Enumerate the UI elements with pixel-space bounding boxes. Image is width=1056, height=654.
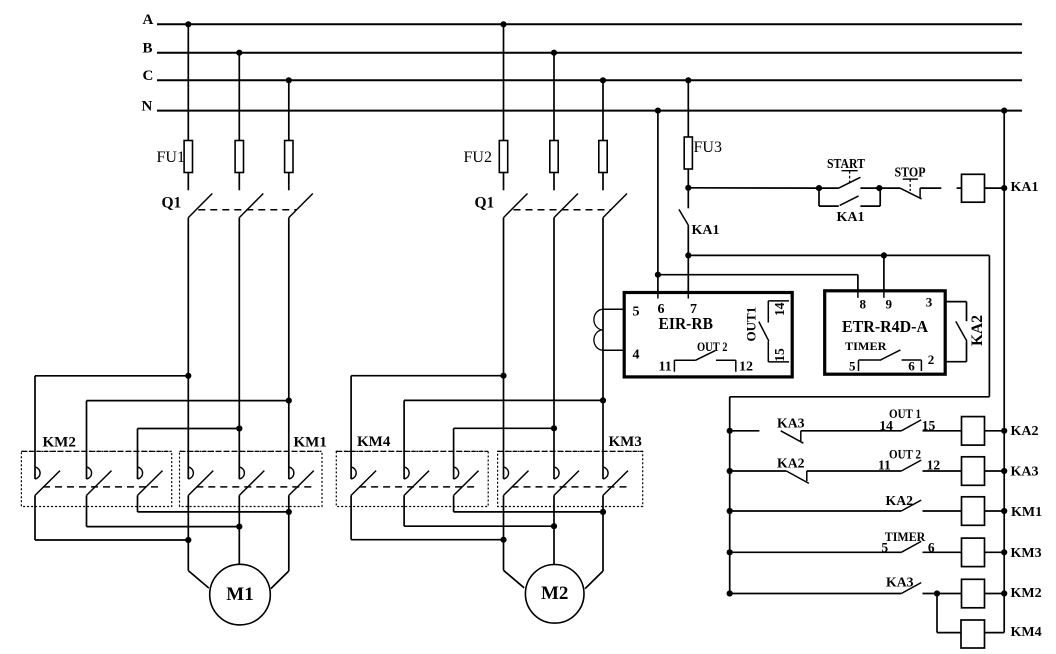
contactor KM3 contact 3	[602, 478, 604, 480]
svg-text:STOP: STOP	[895, 165, 926, 180]
svg-text:M2: M2	[541, 583, 568, 604]
svg-text:KM2: KM2	[1011, 586, 1042, 601]
svg-text:A: A	[143, 12, 154, 28]
wire ETR pin 3 to KA2 coil branch	[945, 301, 966, 303]
coil KM1	[962, 497, 985, 526]
EIR-RB pin 7 stub	[687, 293, 689, 299]
junction phase A tap	[185, 21, 191, 27]
contact OUT2 (NO, row2)	[901, 460, 921, 471]
junction	[727, 549, 733, 555]
svg-text:OUT 2: OUT 2	[889, 447, 921, 462]
wire N2 to ETR pin 8	[658, 274, 858, 276]
wire KM2 contact 1 out to motor lead U1	[35, 539, 188, 541]
svg-text:Q1: Q1	[475, 194, 495, 211]
current sensor loop on phase wire	[594, 309, 603, 330]
svg-text:12: 12	[927, 457, 941, 472]
breaker Q1 pole 3 blade	[289, 194, 313, 218]
wire coil KM3 to rail	[985, 551, 1005, 553]
wire KA1 contact to EIR-RB pin 7	[687, 225, 689, 292]
wire FU1 pole 2 to Q1	[238, 173, 240, 191]
junction N tap	[1001, 108, 1007, 114]
wire phase B drop to FU1 pole 2	[238, 53, 240, 141]
junction phase A tap	[500, 21, 506, 27]
junction	[727, 468, 733, 474]
wire phase B to KM2 contact 3	[138, 428, 240, 430]
fuse FU2 pole 3	[599, 141, 607, 173]
wire motor M2 lead W	[602, 512, 604, 571]
svg-text:KM2: KM2	[43, 435, 76, 451]
coil KM2	[962, 579, 985, 608]
svg-text:KM4: KM4	[357, 434, 391, 450]
junction	[551, 425, 557, 431]
breaker Q1 link (left)	[198, 209, 296, 211]
junction	[1001, 508, 1007, 514]
contactor KM3 contact 1	[503, 478, 505, 480]
wire FU2 pole 1 to Q1	[503, 173, 505, 191]
node N neutral bus	[157, 110, 1022, 112]
junction	[236, 524, 242, 530]
wire FU2 pole 3 to Q1	[602, 173, 604, 191]
relay contact KA2 (NC)	[786, 471, 809, 483]
wire row3 from rail	[730, 510, 902, 512]
junction phase C tap for FU3	[685, 77, 691, 83]
junction	[185, 537, 191, 543]
contactor KM2 contact 2	[86, 401, 88, 479]
svg-text:FU2: FU2	[464, 149, 492, 166]
svg-text:ETR-R4D-A: ETR-R4D-A	[842, 317, 929, 336]
svg-text:5: 5	[881, 540, 888, 555]
wire phase A to KM2 contact 1	[35, 375, 188, 377]
contact OUT2 (inside EIR-RB)	[673, 360, 675, 372]
relay contact KA3 (NO, row5)	[901, 583, 921, 594]
wire KM4 contact 1 out to motor lead U2	[351, 539, 503, 541]
svg-text:5: 5	[849, 359, 856, 374]
wire L1 to START	[688, 187, 819, 189]
contactor KM2 contact 3	[137, 429, 139, 480]
svg-text:Q1: Q1	[162, 194, 182, 211]
EIR-RB pin 6 stub	[657, 293, 659, 299]
junction	[655, 108, 661, 114]
motor M1	[210, 564, 271, 625]
fuse FU1 pole 2	[235, 141, 243, 173]
svg-text:5: 5	[633, 304, 640, 319]
svg-text:C: C	[143, 68, 154, 84]
svg-text:START: START	[827, 156, 865, 171]
fuse FU3	[684, 137, 692, 169]
contactor KM3 contact 2	[553, 478, 555, 480]
node C phase bus	[157, 79, 1022, 81]
junction	[286, 398, 292, 404]
wire coil KM2 to rail	[985, 593, 1005, 595]
junction	[185, 373, 191, 379]
wire Q1 pole 1 to KM1 contact 1	[187, 218, 189, 479]
junction	[500, 373, 506, 379]
contactor KM4 contact 1	[350, 376, 352, 479]
wire coil KA1 to N rail	[985, 187, 1005, 189]
junction	[1001, 549, 1007, 555]
wire KM2 contact 3 out to motor lead W1	[138, 511, 289, 513]
junction	[600, 509, 606, 515]
wire phase C to FU3	[687, 80, 689, 137]
wire Q1 pole 2 to KM3 contact 2	[553, 218, 555, 479]
contactor KM1 mechanical link	[196, 486, 313, 488]
wire phase B to KM4 contact 3	[454, 427, 554, 429]
svg-text:KA2: KA2	[886, 494, 914, 509]
contact TIMER (NO, row4)	[901, 541, 921, 552]
wire KM2 contact 2 out to motor lead V1	[87, 526, 240, 528]
svg-text:9: 9	[886, 297, 893, 312]
junction	[286, 509, 292, 515]
svg-text:14: 14	[772, 302, 787, 316]
wire Q1 pole 3 to KM3 contact 3	[602, 218, 604, 479]
svg-text:FU1: FU1	[157, 149, 185, 166]
EIR-RB pin 4 stub	[603, 349, 624, 351]
wire Q1 pole 1 to KM3 contact 1	[503, 218, 505, 479]
breaker Q1 pole 2 blade	[239, 194, 263, 218]
junction	[1001, 590, 1007, 596]
breaker Q1 pole 1 blade	[188, 194, 212, 218]
svg-text:KM4: KM4	[1011, 625, 1042, 640]
junction control node L1	[685, 185, 691, 191]
fuse FU2 pole 2	[550, 141, 558, 173]
wire phase A drop to FU2 pole 1	[503, 24, 505, 140]
motor M2	[525, 565, 584, 624]
contactor KM1 contact 2	[238, 478, 240, 480]
wire Q1 pole 3 to KM1 contact 3	[288, 218, 290, 479]
junction phase B tap	[551, 50, 557, 56]
wire N rail (right)	[1003, 111, 1005, 633]
coil KA3	[962, 457, 985, 486]
wire FU1 pole 1 to Q1	[187, 173, 189, 191]
svg-text:FU3: FU3	[694, 139, 722, 156]
wire STOP to coil KA1	[957, 187, 962, 189]
svg-text:4: 4	[633, 348, 640, 363]
relay contact KA3 (NC)	[781, 431, 804, 443]
wire phase A drop to FU1 pole 1	[187, 24, 189, 140]
wire FU2 pole 2 to Q1	[553, 173, 555, 191]
pushbutton STOP (NC)	[879, 187, 900, 189]
wire row4 from rail	[730, 551, 902, 553]
junction	[1001, 468, 1007, 474]
junction	[727, 428, 733, 434]
relay contact KA1 (self-holding, NO)	[818, 188, 820, 206]
ETR pin 8 stub	[857, 291, 859, 298]
svg-text:6: 6	[908, 359, 915, 374]
svg-text:2: 2	[928, 352, 935, 367]
junction	[881, 252, 887, 258]
svg-text:KM1: KM1	[1011, 505, 1042, 520]
breaker Q1 link (middle)	[514, 209, 611, 211]
contactor KM4 contact 2	[403, 400, 405, 479]
svg-text:B: B	[143, 40, 153, 56]
wire coil KM4 to rail	[985, 632, 1005, 634]
contactor KM3 mechanical link	[512, 486, 629, 488]
svg-text:KA2: KA2	[969, 315, 986, 346]
wire Q1 pole 2 to KM1 contact 2	[238, 218, 240, 479]
wire L2 feed	[688, 254, 989, 256]
coil KA1	[962, 174, 985, 202]
svg-text:TIMER: TIMER	[885, 529, 926, 544]
svg-text:N: N	[142, 98, 153, 114]
contactor KM4 mechanical link	[359, 486, 479, 488]
contactor KM1 contact 3	[288, 478, 290, 480]
relay contact KA2 (on ETR output)	[956, 321, 967, 341]
fuse FU2 pole 1	[499, 141, 507, 173]
svg-text:OUT 1: OUT 1	[889, 406, 921, 421]
junction phase C tap	[286, 77, 292, 83]
wire N to EIR-RB pin 6	[657, 111, 659, 293]
wire branch to coil KM4	[936, 594, 938, 633]
EIR-RB pin 5 stub	[603, 308, 624, 310]
contactor KM4 contact 3	[453, 428, 455, 479]
junction	[600, 397, 606, 403]
wire KM4 contact 3 out to motor lead W2	[454, 511, 603, 513]
relay contact KA1 (NO, in FU3 branch)	[679, 209, 688, 225]
contactor KM1 box	[180, 451, 323, 506]
junction phase B tap	[236, 50, 242, 56]
wire motor M1 lead U	[187, 540, 189, 571]
wire phase C to KM2 contact 2	[87, 400, 289, 402]
junction node N2	[655, 272, 661, 278]
svg-text:TIMER: TIMER	[845, 341, 887, 353]
svg-text:15: 15	[772, 348, 787, 362]
junction	[500, 537, 506, 543]
contact OUT1 (inside EIR-RB)	[768, 300, 789, 302]
contactor KM1 contact 1	[187, 478, 189, 480]
svg-text:14: 14	[879, 418, 893, 433]
wire motor M2 lead U	[503, 540, 505, 571]
junction	[551, 523, 557, 529]
wire phase C drop to FU1 pole 3	[288, 80, 290, 140]
wire KA2 contact to ETR pin 2	[966, 341, 968, 361]
svg-text:11: 11	[878, 457, 891, 472]
timer module ETR-R4D-A box	[825, 291, 946, 374]
svg-text:11: 11	[659, 360, 672, 375]
wire coil KA2 to rail	[985, 430, 1005, 432]
relay contact KA2 (NO, row3)	[901, 500, 921, 511]
svg-text:KA2: KA2	[777, 456, 805, 471]
relay module EIR-RB box	[624, 293, 792, 377]
wire coil KA3 to rail	[985, 470, 1005, 472]
wire motor M2 lead V	[553, 526, 555, 564]
junction phase C tap	[600, 77, 606, 83]
junction	[727, 508, 733, 514]
svg-text:KA3: KA3	[777, 416, 805, 431]
svg-text:6: 6	[928, 540, 935, 555]
svg-text:12: 12	[739, 360, 753, 375]
contactor KM2 contact 1	[34, 376, 36, 479]
svg-text:KA3: KA3	[1011, 464, 1039, 479]
ETR pin 9 stub	[883, 291, 885, 298]
svg-text:KM3: KM3	[1011, 546, 1042, 561]
wire L2 to ETR pin 9	[883, 255, 885, 290]
svg-text:KA2: KA2	[1011, 424, 1039, 439]
svg-text:KA1: KA1	[1011, 180, 1039, 195]
svg-text:7: 7	[690, 302, 697, 317]
wire phase C to KM4 contact 2	[404, 399, 603, 401]
junction node L2	[685, 252, 691, 258]
wire FU1 pole 3 to Q1	[288, 173, 290, 191]
svg-text:6: 6	[658, 302, 665, 317]
svg-text:M1: M1	[226, 584, 253, 605]
wire FU3 to control node L1	[687, 169, 689, 208]
svg-text:KA1: KA1	[692, 223, 720, 238]
svg-text:OUT1: OUT1	[744, 307, 759, 342]
contactor KM3 box	[498, 451, 643, 506]
wire coil KM1 to rail	[985, 510, 1005, 512]
wire phase B drop to FU2 pole 2	[553, 53, 555, 141]
coil KA2	[962, 417, 985, 446]
breaker Q1 pole 1 blade	[504, 194, 528, 218]
contactor KM2 box	[21, 451, 171, 506]
fuse FU1 pole 3	[285, 141, 293, 173]
svg-text:KA1: KA1	[837, 210, 865, 225]
breaker Q1 pole 3 blade	[603, 194, 627, 218]
wire row1 from rail	[730, 430, 760, 432]
coil KM3	[962, 538, 985, 567]
svg-text:KA3: KA3	[886, 575, 914, 590]
pushbutton START (NO)	[819, 187, 839, 189]
svg-text:3: 3	[926, 295, 933, 310]
wire motor M1 lead W	[288, 512, 290, 571]
svg-text:8: 8	[860, 297, 867, 312]
contactor KM4 box	[336, 451, 488, 506]
svg-text:KM1: KM1	[294, 435, 327, 451]
junction	[876, 185, 882, 191]
junction	[1001, 428, 1007, 434]
svg-text:15: 15	[922, 418, 936, 433]
junction KM2/KM4 branch	[934, 590, 940, 596]
contact TIMER (inside ETR)	[858, 360, 860, 371]
wire row5 from rail	[730, 593, 902, 595]
wire phase C drop to FU2 pole 3	[602, 80, 604, 140]
fuse FU1 pole 1	[184, 141, 192, 173]
junction	[236, 425, 242, 431]
contactor KM2 mechanical link	[43, 486, 163, 488]
node A phase bus	[157, 23, 1022, 25]
breaker Q1 pole 2 blade	[554, 194, 578, 218]
svg-text:EIR-RB: EIR-RB	[659, 314, 714, 333]
wire KM4 contact 2 out to motor lead V2	[404, 525, 554, 527]
junction	[816, 185, 822, 191]
node B phase bus	[157, 52, 1022, 54]
wire phase A to KM4 contact 1	[351, 375, 503, 377]
svg-text:KM3: KM3	[609, 434, 642, 450]
wire motor M1 lead V	[238, 527, 240, 565]
wire row2 from rail	[730, 470, 787, 472]
coil KM4	[961, 620, 985, 648]
junction	[727, 590, 733, 596]
junction	[1001, 185, 1007, 191]
contact OUT1 (NO, row1)	[901, 420, 921, 431]
